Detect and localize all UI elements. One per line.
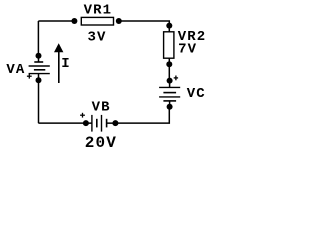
resistor VR1 [81,17,113,25]
node: VA top terminal [36,53,42,59]
wire: VR2 bottom stub [168,58,170,64]
wire: top-right horizontal segment with corner down to VR2 [119,21,170,26]
wire: VR2 top stub [168,26,170,32]
wire: bottom-left horizontal to VB [38,122,86,124]
svg-text:VR1: VR1 [84,2,113,18]
svg-text:3V: 3V [87,29,106,45]
battery VB plates [92,115,107,132]
wire: VA bottom to bottom-left corner [38,80,40,123]
node: VC bottom terminal [167,104,173,110]
wire: VB right stub [107,122,116,124]
wire: VA bottom stub [38,74,40,81]
node: VB left terminal [83,120,89,126]
svg-text:VC: VC [187,86,206,102]
wire: VB right to bottom-right corner up to VC [115,107,169,123]
wire: top-left horizontal segment [38,20,74,22]
svg-text:VA: VA [6,62,25,78]
battery VA plates [29,62,50,74]
wire: VA top stub [38,56,40,62]
svg-text:7V: 7V [178,41,197,57]
resistor VR2 [164,32,174,58]
node: VA bottom terminal [36,77,42,83]
battery VC plus sign [174,76,178,81]
node: VC top terminal [167,78,173,84]
wire: VC bottom stub [169,101,171,107]
node: VR1 right terminal [116,18,122,24]
node: VR2 top terminal [166,23,172,29]
battery VB plus sign [80,113,85,118]
svg-text:20V: 20V [85,134,117,152]
wire: VC top stub [169,81,171,88]
node: VR2 bottom terminal [166,61,172,67]
node: VR1 left terminal [71,18,77,24]
node: VB right terminal [112,120,118,126]
battery VA plus sign [27,74,32,79]
svg-text:I: I [61,56,71,72]
wire: left vertical segment from top corner to VA [37,21,39,56]
battery VC plates [159,87,180,101]
svg-text:VB: VB [92,99,111,115]
wire: VB left stub [86,122,92,124]
current arrow I [58,50,60,83]
wire: VR2 bottom dot to VC top dot [168,64,170,80]
